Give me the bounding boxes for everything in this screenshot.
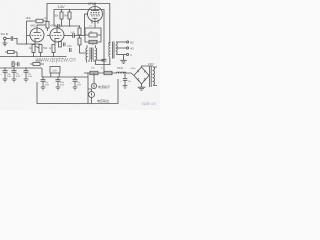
inductor L2 bbox=[116, 71, 126, 74]
wire bridge bottom + ground bbox=[138, 84, 146, 90]
wire mains left drop bbox=[87, 73, 89, 104]
wire bridge top bbox=[142, 66, 154, 67]
wire tap 8 ohm bbox=[116, 41, 126, 43]
wire C2 right bbox=[59, 25, 61, 27]
capacitor C13 filter bbox=[56, 77, 61, 87]
resistor Rk bbox=[89, 33, 97, 37]
transformer B1 mains bbox=[150, 66, 152, 87]
wire inner screen rail bbox=[54, 10, 104, 74]
meter P1 bbox=[89, 92, 95, 98]
capacitor C12 filter bbox=[41, 77, 46, 87]
capacitor C6 small bbox=[18, 62, 19, 66]
ground C13 bbox=[56, 87, 61, 90]
wire B+ outer top rail bbox=[47, 4, 110, 44]
wire R3 bottom bbox=[33, 53, 35, 57]
wire C4 right bbox=[74, 35, 84, 37]
capacitor C2 bbox=[58, 24, 59, 29]
socket pins bbox=[87, 60, 95, 63]
wire to bridge bbox=[126, 73, 134, 76]
wire R4 bottom bbox=[53, 53, 55, 57]
wire input bbox=[6, 38, 10, 40]
capacitor C5 filter bbox=[3, 68, 8, 79]
capacitor C4 coupling bbox=[73, 33, 75, 38]
wire R8 down to heater trafo bbox=[80, 45, 86, 53]
capacitor C7 filter bbox=[24, 68, 29, 79]
wire C1 to node bbox=[13, 39, 40, 45]
resistor R16 bbox=[104, 71, 112, 74]
wire R6 bottom stub bbox=[47, 28, 49, 31]
wire 150k right bbox=[43, 20, 47, 22]
wire PSU rail bbox=[84, 72, 116, 74]
ground C12 bbox=[41, 87, 46, 90]
wire C2 left bbox=[54, 25, 58, 27]
ground input jack bbox=[2, 40, 7, 46]
wire chassis box bbox=[37, 79, 118, 104]
wire node to grid A column bbox=[26, 21, 28, 44]
ground C7 bbox=[24, 79, 29, 82]
wire primary bottom bbox=[109, 57, 111, 65]
capacitor C6 filter bbox=[12, 68, 17, 79]
ground C6 bbox=[12, 79, 17, 82]
resistor R10 bbox=[89, 40, 97, 43]
capacitor C11 bbox=[70, 48, 72, 52]
resistor R6 between tubes bbox=[46, 22, 49, 29]
ground C5 bbox=[3, 79, 8, 82]
ground C9 bbox=[123, 86, 128, 89]
wire R1 bottom bbox=[61, 19, 63, 26]
components C10 bbox=[59, 42, 62, 48]
transformer B3 output bbox=[109, 42, 111, 44]
resistor R4 cathode bbox=[52, 45, 55, 53]
wire V1a plate up bbox=[37, 24, 46, 26]
wire heater bottom bbox=[96, 60, 110, 65]
junction dots bbox=[4, 3, 125, 78]
resistor series input bbox=[8, 51, 15, 54]
resistor R3 cathode bbox=[32, 45, 35, 53]
bridge rectifier D1-D4 bbox=[134, 67, 149, 84]
wire rail 3 bbox=[42, 76, 88, 78]
wire rail 2 bbox=[0, 67, 42, 69]
capacitor C1 input bbox=[11, 36, 13, 40]
wire rail2 to rail3 bbox=[41, 68, 43, 77]
ground C14 bbox=[73, 87, 78, 90]
indicator lamp HL1 bbox=[91, 83, 96, 88]
cathode network loop V2 bbox=[85, 28, 101, 42]
wire loop bottom bbox=[92, 44, 94, 45]
wire R2 top bbox=[69, 10, 71, 13]
resistor R9 small bbox=[12, 62, 14, 67]
capacitor C15 bbox=[102, 59, 107, 61]
capacitor C9 bbox=[123, 73, 128, 86]
wire V1a grid bbox=[27, 35, 31, 37]
wire C4 left bbox=[64, 35, 73, 37]
wire R1 top bbox=[61, 10, 63, 13]
resistor R1 plate load bbox=[60, 12, 63, 19]
wire pin bus bbox=[96, 59, 104, 61]
wire R2 bottom bbox=[69, 19, 71, 26]
transformer B2 heater bbox=[87, 45, 96, 48]
resistor R7 grid leak bbox=[78, 28, 81, 35]
wire 150k left bbox=[27, 20, 37, 22]
wire V1b grid bbox=[47, 35, 50, 37]
wire tap 0 bbox=[116, 54, 126, 56]
resistor R8 lower bbox=[78, 38, 81, 45]
capacitor C14 filter bbox=[73, 77, 78, 87]
wire grid feed vertical bbox=[85, 14, 88, 35]
resistor on rail2 bbox=[33, 63, 40, 66]
ground secondary bbox=[120, 55, 126, 64]
potentiometer RP 50k bbox=[39, 45, 42, 53]
wire ground rail preamp bbox=[0, 56, 67, 58]
wire V2 grid bbox=[85, 13, 89, 15]
resistor R2 plate load bbox=[68, 12, 71, 19]
wire pot bottom bbox=[40, 53, 42, 57]
choke L1 bbox=[50, 67, 60, 74]
wire plate node bus bbox=[62, 25, 80, 27]
wire tap 4 ohm bbox=[116, 47, 126, 49]
resistor R15 bbox=[90, 71, 98, 74]
heater pins V2 bbox=[92, 20, 98, 24]
